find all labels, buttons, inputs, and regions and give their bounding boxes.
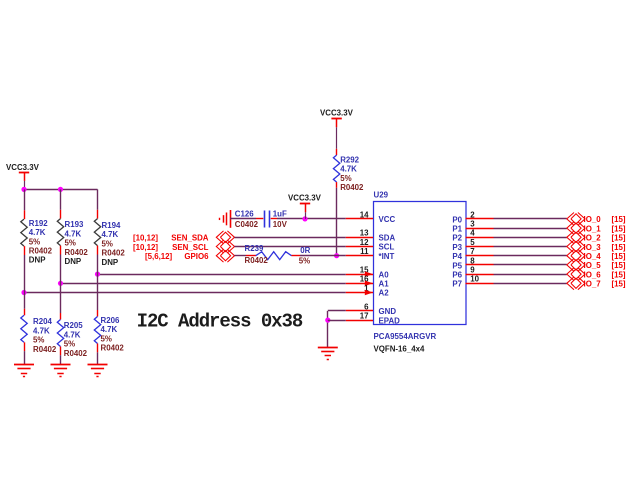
svg-text:IO_0: IO_0 bbox=[584, 215, 602, 224]
svg-text:R206: R206 bbox=[101, 316, 120, 325]
svg-text:VQFN-16_4x4: VQFN-16_4x4 bbox=[374, 344, 425, 353]
svg-text:4.7K: 4.7K bbox=[33, 326, 50, 335]
svg-text:10V: 10V bbox=[273, 220, 288, 229]
svg-text:4.7K: 4.7K bbox=[29, 228, 46, 237]
svg-text:4.7K: 4.7K bbox=[101, 325, 118, 334]
svg-text:5%: 5% bbox=[299, 257, 310, 266]
svg-text:7: 7 bbox=[470, 247, 475, 256]
svg-text:[10,12]: [10,12] bbox=[133, 234, 158, 243]
svg-text:11: 11 bbox=[360, 247, 369, 256]
svg-text:[10,12]: [10,12] bbox=[133, 243, 158, 252]
svg-text:A1: A1 bbox=[379, 280, 390, 289]
svg-text:IO_6: IO_6 bbox=[584, 270, 602, 279]
svg-text:[15]: [15] bbox=[612, 261, 626, 270]
svg-text:3: 3 bbox=[470, 220, 475, 229]
svg-text:P7: P7 bbox=[452, 280, 462, 289]
svg-text:DNP: DNP bbox=[29, 256, 46, 265]
svg-text:5%: 5% bbox=[33, 336, 44, 345]
svg-text:VCC: VCC bbox=[379, 215, 396, 224]
svg-text:P5: P5 bbox=[452, 261, 462, 270]
svg-text:P1: P1 bbox=[452, 225, 462, 234]
svg-text:6: 6 bbox=[364, 302, 369, 311]
svg-text:17: 17 bbox=[360, 312, 369, 321]
svg-text:A2: A2 bbox=[379, 289, 390, 298]
svg-text:1uF: 1uF bbox=[273, 210, 287, 219]
svg-text:SCL: SCL bbox=[379, 243, 395, 252]
svg-text:5%: 5% bbox=[29, 237, 40, 246]
svg-text:VCC3.3V: VCC3.3V bbox=[288, 193, 322, 202]
svg-text:R0402: R0402 bbox=[65, 248, 89, 257]
svg-text:C0402: C0402 bbox=[235, 220, 259, 229]
svg-text:VCC3.3V: VCC3.3V bbox=[6, 163, 40, 172]
svg-text:8: 8 bbox=[470, 256, 475, 265]
svg-text:5%: 5% bbox=[65, 239, 76, 248]
svg-text:P4: P4 bbox=[452, 252, 462, 261]
svg-text:P6: P6 bbox=[452, 271, 462, 280]
svg-text:R0402: R0402 bbox=[29, 247, 53, 256]
svg-text:5: 5 bbox=[470, 238, 475, 247]
svg-text:R0402: R0402 bbox=[64, 349, 88, 358]
svg-text:[15]: [15] bbox=[612, 280, 626, 289]
svg-text:R0402: R0402 bbox=[101, 344, 125, 353]
svg-text:C126: C126 bbox=[235, 210, 254, 219]
svg-text:IO_2: IO_2 bbox=[584, 234, 602, 243]
svg-text:9: 9 bbox=[470, 266, 475, 275]
svg-text:P0: P0 bbox=[452, 215, 462, 224]
svg-text:R194: R194 bbox=[102, 221, 121, 230]
svg-text:5%: 5% bbox=[340, 174, 351, 183]
svg-text:IO_5: IO_5 bbox=[584, 261, 602, 270]
svg-text:2: 2 bbox=[470, 210, 475, 219]
svg-text:IO_4: IO_4 bbox=[584, 252, 602, 261]
svg-text:4.7K: 4.7K bbox=[64, 330, 81, 339]
svg-text:I2C Address 0x38: I2C Address 0x38 bbox=[137, 310, 303, 332]
svg-text:[15]: [15] bbox=[612, 243, 626, 252]
svg-text:IO_3: IO_3 bbox=[584, 243, 602, 252]
svg-text:GND: GND bbox=[379, 307, 397, 316]
svg-text:PCA9554ARGVR: PCA9554ARGVR bbox=[374, 332, 437, 341]
svg-text:[15]: [15] bbox=[612, 270, 626, 279]
svg-text:[15]: [15] bbox=[612, 215, 626, 224]
svg-text:5%: 5% bbox=[101, 334, 112, 343]
svg-text:12: 12 bbox=[360, 238, 369, 247]
svg-text:4.7K: 4.7K bbox=[340, 165, 357, 174]
svg-text:GPIO6: GPIO6 bbox=[184, 252, 209, 261]
svg-text:R193: R193 bbox=[65, 220, 84, 229]
svg-text:4.7K: 4.7K bbox=[102, 230, 119, 239]
svg-text:13: 13 bbox=[360, 229, 369, 238]
svg-text:U29: U29 bbox=[374, 191, 389, 200]
svg-text:SDA: SDA bbox=[379, 234, 396, 243]
svg-text:R292: R292 bbox=[340, 155, 359, 164]
svg-text:R239: R239 bbox=[245, 244, 264, 253]
svg-text:P2: P2 bbox=[452, 234, 462, 243]
svg-text:EPAD: EPAD bbox=[379, 316, 401, 325]
svg-text:DNP: DNP bbox=[65, 257, 82, 266]
svg-text:IO_7: IO_7 bbox=[584, 280, 602, 289]
svg-text:P3: P3 bbox=[452, 243, 462, 252]
svg-text:SEN_SCL: SEN_SCL bbox=[172, 243, 209, 252]
svg-text:4: 4 bbox=[470, 229, 475, 238]
svg-text:R0402: R0402 bbox=[340, 183, 364, 192]
svg-text:[15]: [15] bbox=[612, 252, 626, 261]
svg-text:4.7K: 4.7K bbox=[65, 229, 82, 238]
svg-text:*INT: *INT bbox=[379, 252, 395, 261]
svg-text:R0402: R0402 bbox=[245, 256, 269, 265]
svg-text:5%: 5% bbox=[64, 340, 75, 349]
svg-text:R192: R192 bbox=[29, 219, 48, 228]
svg-text:R205: R205 bbox=[64, 321, 83, 330]
svg-text:5%: 5% bbox=[102, 239, 113, 248]
svg-text:[5,6,12]: [5,6,12] bbox=[145, 252, 173, 261]
svg-text:0R: 0R bbox=[300, 246, 310, 255]
svg-text:DNP: DNP bbox=[102, 258, 119, 267]
svg-text:SEN_SDA: SEN_SDA bbox=[171, 234, 209, 243]
svg-text:[15]: [15] bbox=[612, 224, 626, 233]
svg-text:R0402: R0402 bbox=[33, 345, 57, 354]
svg-text:VCC3.3V: VCC3.3V bbox=[320, 108, 354, 117]
svg-text:A0: A0 bbox=[379, 270, 390, 279]
svg-text:IO_1: IO_1 bbox=[584, 224, 602, 233]
svg-text:R204: R204 bbox=[33, 317, 52, 326]
svg-text:10: 10 bbox=[470, 275, 479, 284]
svg-text:[15]: [15] bbox=[612, 234, 626, 243]
svg-text:14: 14 bbox=[360, 210, 369, 219]
svg-text:R0402: R0402 bbox=[102, 249, 126, 258]
